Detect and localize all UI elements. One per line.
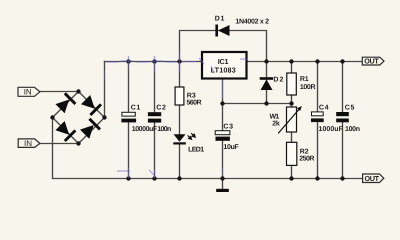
svg-text:C3: C3 xyxy=(223,123,233,130)
svg-text:1N4002 x 2: 1N4002 x 2 xyxy=(235,18,269,25)
svg-text:IN: IN xyxy=(24,139,32,148)
svg-text:100n: 100n xyxy=(157,126,171,133)
svg-text:10uF: 10uF xyxy=(223,144,239,151)
svg-text:100n: 100n xyxy=(345,126,360,133)
svg-text:2k: 2k xyxy=(272,120,280,128)
svg-text:C2: C2 xyxy=(156,104,166,111)
svg-text:OUT: OUT xyxy=(364,57,379,66)
svg-text:W1: W1 xyxy=(270,114,280,121)
svg-text:IN: IN xyxy=(24,88,32,97)
svg-text:10000uF: 10000uF xyxy=(132,126,158,133)
svg-text:D1: D1 xyxy=(215,16,225,23)
svg-text:100R: 100R xyxy=(300,84,316,91)
svg-text:C5: C5 xyxy=(345,105,355,112)
svg-text:560R: 560R xyxy=(186,99,201,106)
svg-text:D2: D2 xyxy=(273,77,283,84)
svg-text:250R: 250R xyxy=(299,156,314,163)
svg-text:LED1: LED1 xyxy=(188,147,204,154)
svg-text:R1: R1 xyxy=(300,76,309,83)
svg-text:C4: C4 xyxy=(319,105,329,112)
svg-text:LT1083: LT1083 xyxy=(211,65,236,74)
svg-text:C1: C1 xyxy=(131,104,141,111)
svg-text:1000uF: 1000uF xyxy=(319,126,344,133)
svg-text:OUT: OUT xyxy=(365,174,380,183)
svg-text:R2: R2 xyxy=(300,148,309,155)
